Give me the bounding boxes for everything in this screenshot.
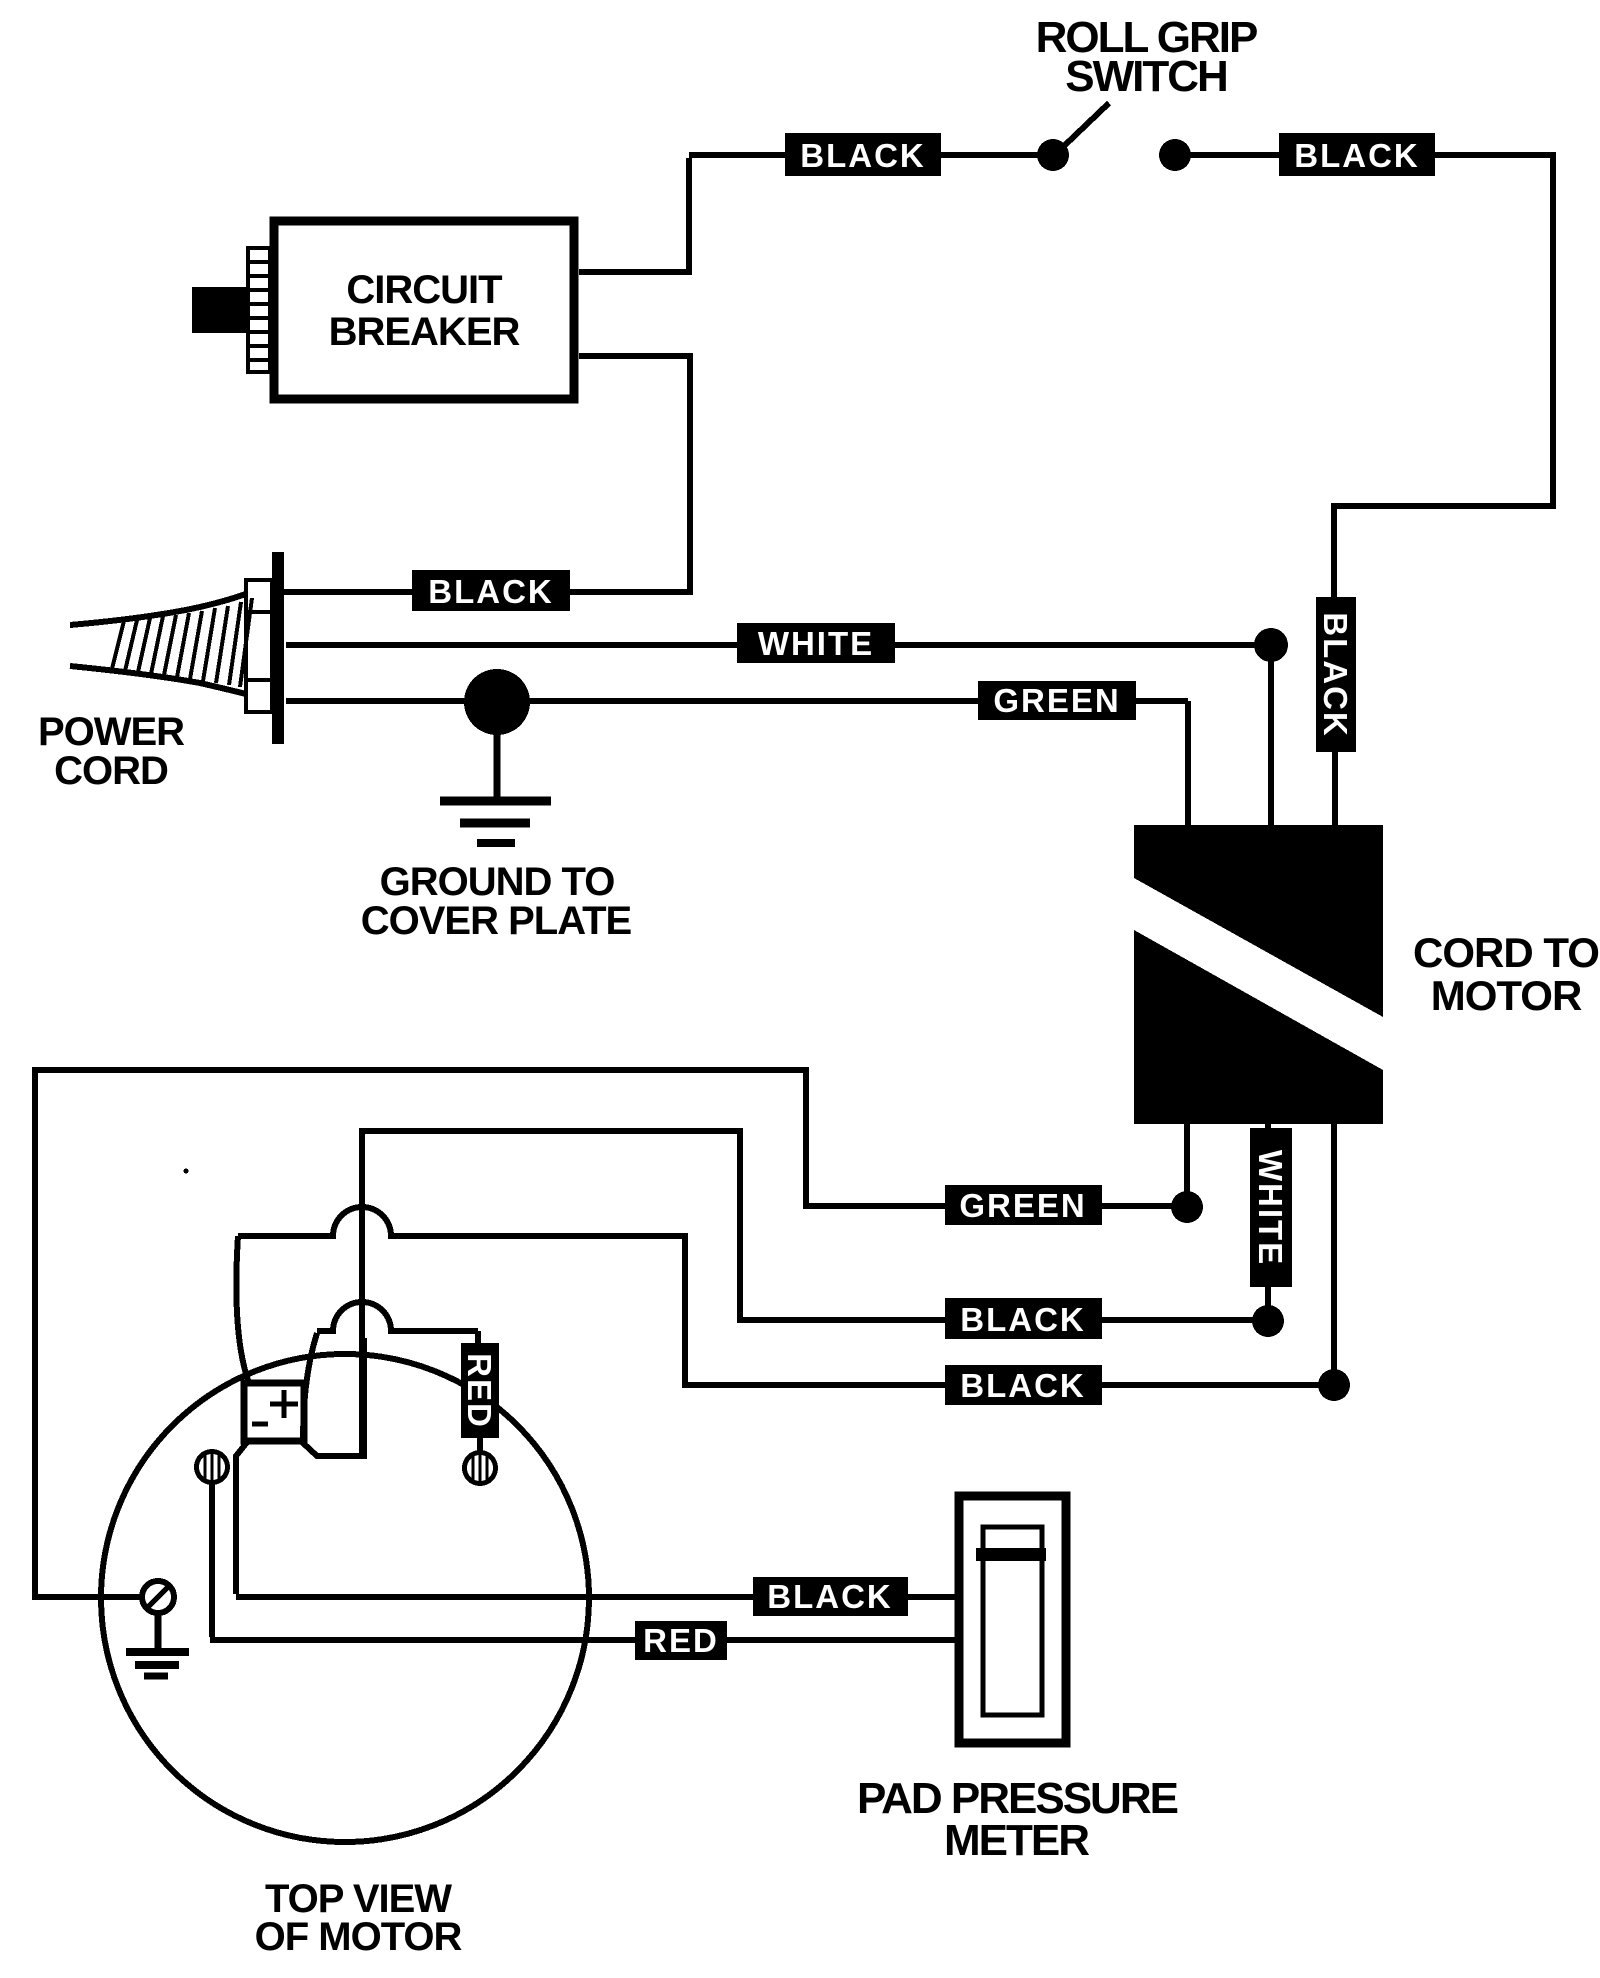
svg-text:WHITE: WHITE (1252, 1150, 1289, 1266)
wire breaker bottom down (283, 353, 693, 592)
label RED vertical (461, 1343, 499, 1438)
motor ground symbol (126, 1613, 189, 1676)
circuit breaker U1 (274, 221, 574, 399)
text PAD PRESSURE METER (857, 1774, 1178, 1865)
wire green below block (35, 1067, 1187, 1600)
wire black to meter (908, 1594, 959, 1600)
wire red from left screw (210, 1481, 635, 1640)
svg-text:BLACK: BLACK (1317, 612, 1354, 737)
power cord bushing (246, 580, 272, 712)
svg-text:BLACK: BLACK (767, 1578, 892, 1615)
wire green from cord (286, 701, 1188, 826)
label WHITE vertical (1250, 1128, 1292, 1287)
text POWER CORD (38, 710, 185, 793)
stray ink speck (184, 1169, 189, 1174)
cord to motor connector block (1134, 825, 1383, 1124)
svg-text:POWER: POWER (38, 710, 185, 754)
screw terminal right (465, 1453, 496, 1484)
node ground junction (464, 669, 530, 735)
wire white from cord (286, 645, 1271, 826)
wire curved drop to motor terminal box (236, 1236, 249, 1383)
svg-text:OF MOTOR: OF MOTOR (255, 1915, 463, 1959)
svg-text:RED: RED (461, 1353, 498, 1429)
svg-text:BLACK: BLACK (428, 573, 553, 610)
wire RED label to screw (477, 1438, 483, 1453)
svg-text:WHITE: WHITE (758, 625, 874, 662)
breaker terminal comb (248, 248, 270, 372)
node green junction bottom (1171, 1191, 1203, 1223)
label BLACK lower 2 (945, 1365, 1102, 1405)
svg-text:SWITCH: SWITCH (1065, 52, 1227, 101)
label BLACK vertical right (1316, 597, 1356, 752)
label BLACK power cord (412, 570, 570, 611)
breaker reset plug (192, 287, 248, 333)
text CORD TO MOTOR (1413, 929, 1599, 1019)
text GROUND TO COVER PLATE (361, 860, 632, 943)
wire hump to RED resistor (317, 1302, 478, 1343)
wire black vertical into block (1332, 597, 1338, 826)
brush holder blob (303, 1333, 364, 1456)
node white junction (1254, 628, 1288, 662)
text ROLL GRIP SWITCH (1036, 13, 1257, 101)
svg-text:GREEN: GREEN (993, 682, 1120, 719)
power cord strain relief plate (272, 552, 284, 744)
wire red to meter (727, 1637, 959, 1643)
svg-text:RED: RED (643, 1622, 719, 1659)
pad pressure meter (959, 1496, 1066, 1743)
svg-text:METER: METER (944, 1816, 1089, 1865)
node white junction bottom (1252, 1305, 1284, 1337)
svg-text:CORD: CORD (54, 749, 168, 793)
svg-text:GROUND TO: GROUND TO (380, 860, 615, 904)
wire switch pointer (1064, 103, 1109, 146)
wire black from terminal box (236, 1441, 753, 1597)
wire top black left (579, 155, 1041, 272)
wire top black right (1187, 152, 1556, 600)
wire black1 run (362, 1128, 1268, 1456)
svg-text:GREEN: GREEN (959, 1187, 1086, 1224)
wire black2 vertical from block (1331, 1124, 1337, 1385)
svg-text:MOTOR: MOTOR (1431, 972, 1582, 1019)
label BLACK top-right (1279, 133, 1435, 176)
label GREEN top (978, 681, 1136, 720)
ground to cover plate (440, 702, 551, 843)
svg-text:COVER PLATE: COVER PLATE (361, 899, 632, 943)
wire white below block (1265, 1124, 1271, 1321)
text TOP VIEW OF MOTOR (255, 1877, 463, 1959)
svg-text:CIRCUIT: CIRCUIT (346, 268, 502, 312)
wire black2 run (682, 1233, 1334, 1388)
label RED bottom (635, 1621, 727, 1660)
svg-text:BLACK: BLACK (800, 137, 925, 174)
label WHITE (737, 623, 895, 663)
motor ground terminal (142, 1581, 174, 1613)
motor terminal box (244, 1383, 304, 1441)
power cord horn (70, 594, 252, 694)
node black junction bottom (1318, 1369, 1350, 1401)
svg-text:BLACK: BLACK (960, 1301, 1085, 1338)
svg-text:BLACK: BLACK (1294, 137, 1419, 174)
label BLACK lower 1 (945, 1298, 1102, 1339)
label BLACK meter (753, 1577, 908, 1616)
roll grip switch contact left (1037, 139, 1069, 171)
roll grip switch contact right (1159, 139, 1191, 171)
svg-text:BREAKER: BREAKER (329, 310, 521, 354)
motor housing circle (101, 1354, 589, 1842)
wire hump crossover to motor (238, 1207, 685, 1236)
screw terminal left (197, 1452, 228, 1483)
label GREEN bottom (945, 1185, 1102, 1225)
label BLACK top-left (785, 133, 941, 176)
svg-text:CORD TO: CORD TO (1413, 929, 1599, 976)
wire left loop to ground terminal (35, 1594, 144, 1600)
svg-text:BLACK: BLACK (960, 1367, 1085, 1404)
